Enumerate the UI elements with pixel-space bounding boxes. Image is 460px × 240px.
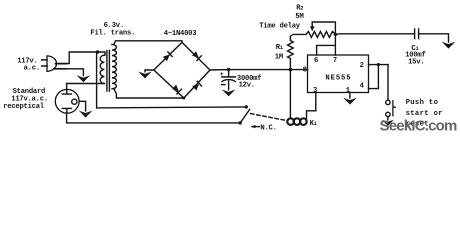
svg-text:4~1N4003: 4~1N4003 xyxy=(164,30,197,38)
wire pin 2 / pin 4 tie xyxy=(369,65,389,89)
svg-text:R1: R1 xyxy=(276,44,283,52)
receptacle J1 xyxy=(55,89,79,113)
diode D4 lower-right xyxy=(192,81,201,90)
diode D3 lower-left xyxy=(172,85,181,94)
wire hot line down to lower rail (N.C. contact rail) xyxy=(97,52,247,108)
svg-text:8: 8 xyxy=(303,66,307,74)
switch N.C. relay contact xyxy=(239,105,287,124)
svg-text:12v.: 12v. xyxy=(239,82,255,90)
wire receptacle right with connection arrow xyxy=(79,101,86,111)
label Push to start or reset xyxy=(406,99,443,128)
transformer T1 xyxy=(100,45,116,92)
node top rail junction xyxy=(96,50,99,53)
svg-text:receptical: receptical xyxy=(3,103,45,111)
svg-text:K1: K1 xyxy=(310,120,317,128)
wire to pushbutton xyxy=(387,65,389,101)
capacitor 3000mf 12v xyxy=(220,71,236,90)
wire +12 tap down to relay coil left xyxy=(289,70,291,119)
label 117v. a.c. xyxy=(17,58,40,73)
diode D2 upper-right xyxy=(192,51,201,60)
svg-text:7: 7 xyxy=(333,57,337,65)
label R2 5M xyxy=(295,5,303,21)
wire pin 3 to relay coil xyxy=(307,93,316,119)
svg-text:5M: 5M xyxy=(295,13,303,21)
ground arrow at C1 xyxy=(442,42,456,49)
IC U1 NE555 xyxy=(303,55,369,95)
svg-text:NE555: NE555 xyxy=(325,74,351,82)
junction arrow onto primary-bottom wire xyxy=(77,75,91,82)
svg-text:15v.: 15v. xyxy=(408,58,424,66)
ground arrow under 3000mf xyxy=(222,90,236,97)
wire plug top to transformer primary top xyxy=(66,52,105,64)
node R1 / relay tap on +12 rail xyxy=(289,68,293,72)
relay coil K1 xyxy=(287,118,306,125)
svg-text:+: + xyxy=(220,71,224,78)
svg-text:Push to: Push to xyxy=(406,99,439,107)
svg-text:a.c.: a.c. xyxy=(24,64,40,72)
wire pins 6 and 7 risers xyxy=(317,34,336,55)
wire bridge + output rail to pin 8 xyxy=(210,70,308,77)
svg-text:4: 4 xyxy=(360,82,365,90)
resistor R1 1M xyxy=(288,39,294,69)
potentiometer R2 5M time delay xyxy=(306,22,335,37)
ground pin 1 xyxy=(343,93,357,105)
wire receptacle top xyxy=(66,84,68,90)
label C1 100mf 15v. xyxy=(405,45,425,66)
diode D1 upper-left xyxy=(163,52,172,61)
pushbutton S1 push to start or reset xyxy=(386,100,396,120)
ground arrow under pushbutton xyxy=(382,120,394,126)
wire plug bottom with connection arrow xyxy=(66,69,83,76)
capacitor C1 100mf 15v xyxy=(415,29,449,42)
svg-text:6: 6 xyxy=(314,57,318,65)
label R1 1M xyxy=(275,44,283,62)
svg-text:SeekIC.com: SeekIC.com xyxy=(380,118,458,134)
ground arrow at bridge left corner xyxy=(138,70,154,78)
wire secondary top to bridge top corner xyxy=(114,41,182,45)
node pin2 tie xyxy=(377,63,380,66)
wire secondary bottom to bridge bottom corner xyxy=(114,88,184,98)
svg-text:N.C.: N.C. xyxy=(260,124,276,132)
label Standard 117v.a.c. receptical xyxy=(3,88,48,111)
node cap tap xyxy=(227,68,230,71)
svg-text:1M: 1M xyxy=(275,54,283,62)
label N.C. with pointer xyxy=(251,124,276,132)
svg-text:R2: R2 xyxy=(296,5,303,13)
ac plug P1 xyxy=(42,56,67,71)
svg-text:2: 2 xyxy=(360,62,364,70)
wire receptacle bottom to switch arm rail xyxy=(67,113,241,123)
svg-text:Time delay: Time delay xyxy=(259,23,301,31)
node R2 junction xyxy=(334,33,337,36)
wire timing node to C1 xyxy=(335,33,414,36)
svg-text:Fil. trans.: Fil. trans. xyxy=(90,30,135,38)
wire transformer primary bottom xyxy=(67,83,105,85)
label 6.3v. Fil. trans. xyxy=(90,22,135,38)
wire R1 top to R2 left end xyxy=(290,34,306,38)
bridge rectifier 4~1N4003 xyxy=(154,42,210,98)
